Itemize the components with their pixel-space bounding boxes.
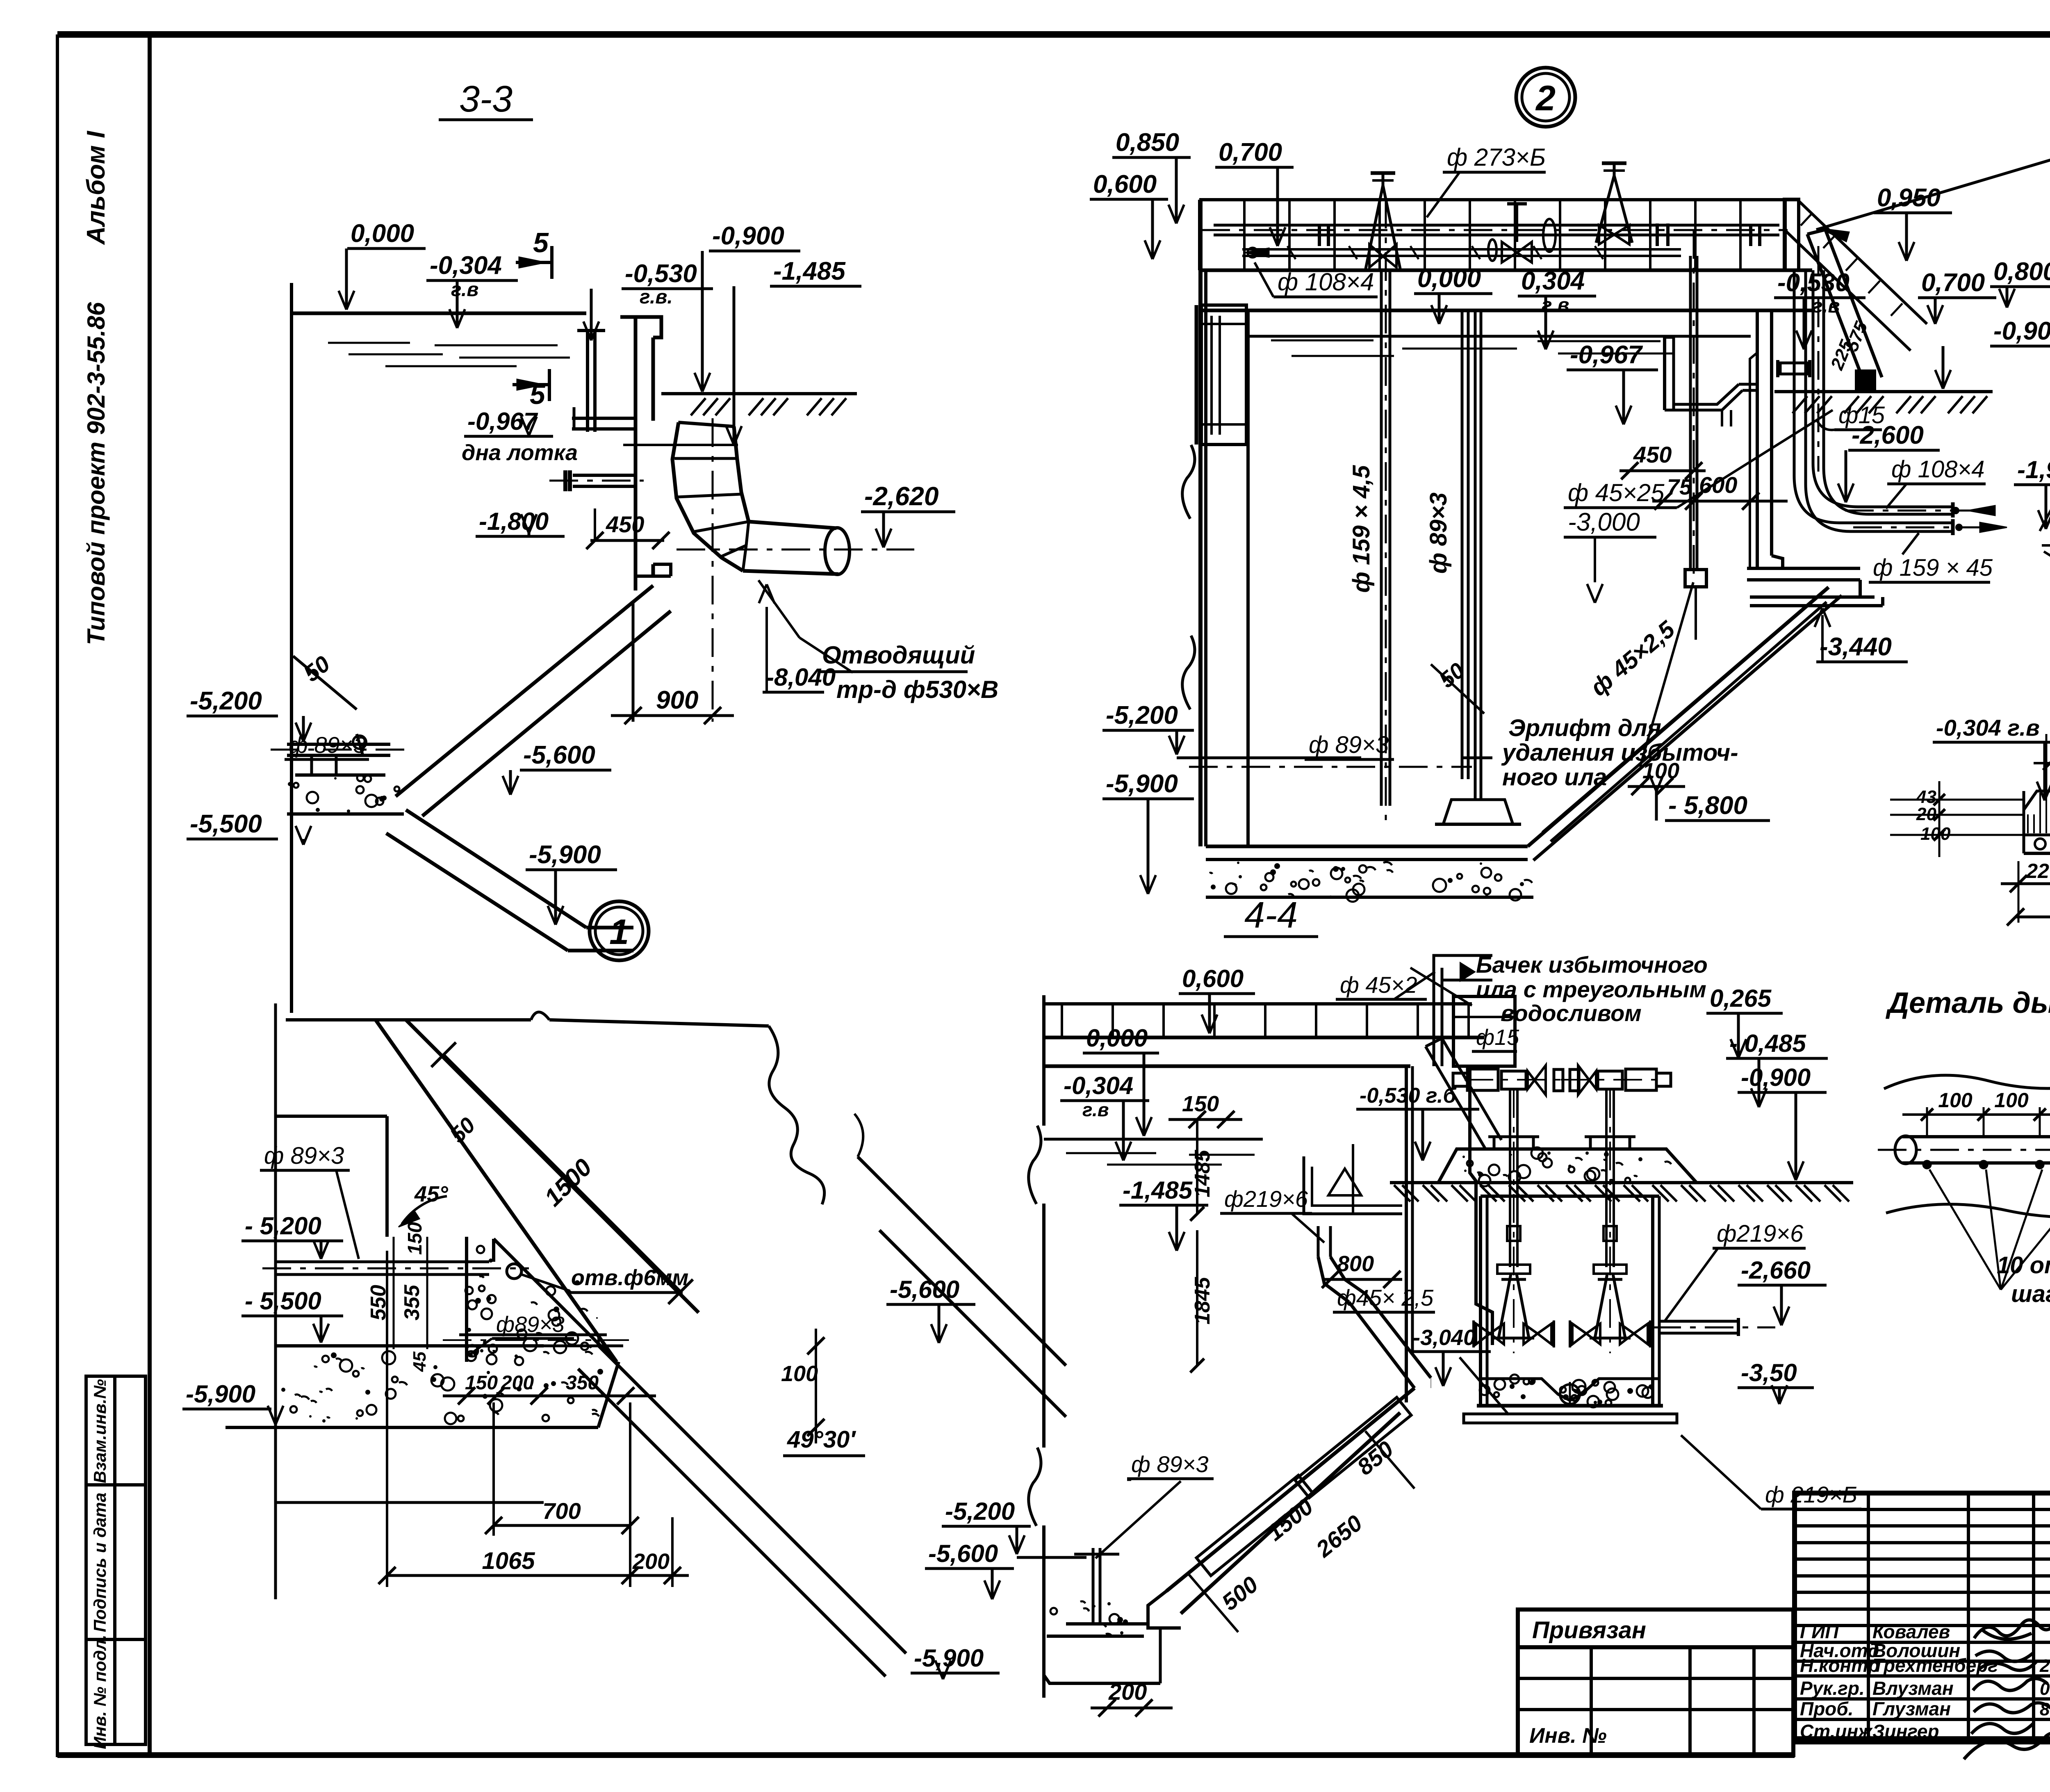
svg-text:шаг 100: шаг 100	[2011, 1281, 2050, 1307]
svg-text:-1,485: -1,485	[773, 257, 846, 285]
svg-text:600: 600	[1699, 472, 1737, 498]
svg-text:Типовой проект 902-3-55.86: Типовой проект 902-3-55.86	[82, 302, 110, 645]
svg-text:тр-д ф530×В: тр-д ф530×В	[836, 676, 998, 703]
svg-text:г.в: г.в	[1082, 1099, 1109, 1120]
svg-text:- 0,485: - 0,485	[1729, 1030, 1806, 1057]
svg-text:350: 350	[566, 1372, 599, 1394]
svg-text:Взам.инв.№: Взам.инв.№	[90, 1379, 109, 1483]
svg-text:ф 108×4: ф 108×4	[1278, 268, 1374, 296]
svg-text:ф 159 × 4,5: ф 159 × 4,5	[1348, 465, 1375, 593]
svg-text:-5,900: -5,900	[186, 1380, 255, 1408]
svg-text:- 5,200: - 5,200	[245, 1212, 321, 1240]
svg-text:ф45× 2,5: ф45× 2,5	[1337, 1285, 1434, 1311]
svg-text:ф 89×3: ф 89×3	[1425, 492, 1452, 574]
svg-text:г.в: г.в	[1812, 295, 1840, 317]
svg-text:450: 450	[606, 511, 644, 537]
svg-text:0,000: 0,000	[1417, 264, 1481, 293]
svg-text:ф219×6: ф219×6	[1717, 1220, 1804, 1247]
svg-text:100: 100	[781, 1361, 818, 1386]
svg-text:Деталь дырчатого воздухопров: Деталь дырчатого воздухопровода.	[1885, 987, 2050, 1019]
svg-text:г.в: г.в	[1542, 294, 1569, 316]
svg-text:-0,900: -0,900	[1741, 1064, 1811, 1091]
svg-text:удаления избыточ-: удаления избыточ-	[1501, 739, 1738, 766]
svg-text:ф 219×Б: ф 219×Б	[1765, 1482, 1857, 1507]
svg-text:г.в.: г.в.	[640, 286, 673, 308]
svg-text:водосливом: водосливом	[1501, 1000, 1642, 1026]
svg-text:-0,304: -0,304	[430, 251, 502, 280]
svg-text:220: 220	[2026, 860, 2050, 882]
svg-text:-1,800: -1,800	[479, 508, 549, 535]
svg-text:ного ила: ного ила	[1502, 764, 1607, 791]
svg-text:- 5,500: - 5,500	[245, 1287, 321, 1315]
svg-text:100: 100	[1938, 1089, 1973, 1112]
svg-text:150: 150	[465, 1372, 498, 1394]
svg-text:150: 150	[1182, 1092, 1219, 1116]
svg-text:Н.контр: Н.контр	[1800, 1655, 1879, 1676]
svg-text:0,600: 0,600	[1093, 170, 1157, 198]
svg-text:-5,500: -5,500	[190, 810, 262, 838]
svg-text:-5,600: -5,600	[890, 1276, 959, 1303]
svg-text:Ст.инж: Ст.инж	[1800, 1721, 1873, 1742]
svg-text:0,304: 0,304	[1521, 267, 1585, 295]
svg-text:Эрлифт для: Эрлифт для	[1508, 715, 1661, 741]
svg-text:Проб.: Проб.	[1800, 1698, 1854, 1719]
svg-text:-0,900: -0,900	[1993, 317, 2050, 345]
svg-text:0,700: 0,700	[1219, 138, 1282, 166]
svg-text:-5,600: -5,600	[928, 1540, 998, 1567]
svg-text:800: 800	[1337, 1252, 1374, 1276]
svg-text:10 отв. ф 6 мм: 10 отв. ф 6 мм	[1997, 1252, 2050, 1279]
svg-text:Зингер: Зингер	[1872, 1721, 1939, 1742]
svg-text:49°30′: 49°30′	[787, 1426, 856, 1453]
svg-text:-0,304 г.в: -0,304 г.в	[1936, 715, 2040, 741]
svg-text:0,600: 0,600	[1182, 965, 1244, 992]
svg-text:45: 45	[410, 1352, 430, 1372]
svg-text:Ковалев: Ковалев	[1872, 1621, 1950, 1642]
svg-text:1845: 1845	[1191, 1277, 1214, 1325]
svg-text:0,000: 0,000	[1086, 1024, 1148, 1052]
svg-text:4-4: 4-4	[1244, 895, 1298, 936]
svg-text:150: 150	[404, 1222, 426, 1255]
svg-text:г.в: г.в	[451, 279, 478, 301]
svg-text:Отводящий: Отводящий	[822, 641, 975, 669]
svg-text:- 5,800: - 5,800	[1668, 791, 1747, 820]
svg-text:-0,530 г.б: -0,530 г.б	[1360, 1084, 1457, 1108]
svg-text:ф 89×3: ф 89×3	[1309, 732, 1389, 758]
svg-text:-2,600: -2,600	[1852, 421, 1924, 449]
svg-text:ф15: ф15	[1476, 1025, 1519, 1050]
svg-text:ф 89×3: ф 89×3	[264, 1142, 344, 1169]
svg-text:Инв. № подл.: Инв. № подл.	[90, 1635, 109, 1749]
svg-text:45°: 45°	[414, 1182, 448, 1206]
svg-text:-5,600: -5,600	[523, 741, 595, 769]
svg-text:75: 75	[1667, 475, 1692, 499]
svg-text:-1,950: -1,950	[2017, 456, 2050, 483]
svg-text:Альбом I: Альбом I	[82, 130, 110, 246]
svg-text:-5,900: -5,900	[529, 841, 601, 869]
svg-text:Инв. №: Инв. №	[1529, 1724, 1607, 1748]
svg-text:200: 200	[632, 1549, 670, 1574]
svg-text:Рук.гр.: Рук.гр.	[1800, 1678, 1865, 1699]
svg-text:-0,967: -0,967	[1570, 341, 1643, 369]
svg-text:отв.ф6мм: отв.ф6мм	[571, 1265, 688, 1290]
svg-text:ф 89×3: ф 89×3	[1131, 1451, 1208, 1477]
svg-text:5: 5	[533, 227, 549, 258]
svg-text:Глузман: Глузман	[1872, 1698, 1951, 1719]
svg-text:700: 700	[542, 1498, 581, 1524]
svg-text:-3,440: -3,440	[1820, 633, 1892, 661]
svg-text:1065: 1065	[482, 1548, 535, 1574]
svg-text:Подпись и дата: Подпись и дата	[90, 1493, 109, 1632]
svg-text:ф219×6: ф219×6	[1224, 1186, 1308, 1212]
svg-text:ГИП: ГИП	[1800, 1621, 1839, 1642]
svg-text:100: 100	[1994, 1089, 2029, 1112]
svg-text:0,800: 0,800	[1993, 258, 2050, 286]
svg-text:ф89×3: ф89×3	[496, 1312, 565, 1337]
svg-text:ф 45×2: ф 45×2	[1340, 972, 1417, 998]
svg-text:-5,900: -5,900	[1106, 770, 1178, 798]
svg-text:-5,200: -5,200	[945, 1498, 1015, 1525]
svg-text:Влузман: Влузман	[1872, 1678, 1954, 1699]
svg-text:25.: 25.	[2039, 1656, 2050, 1676]
svg-text:2: 2	[1535, 79, 1556, 118]
svg-text:0,000: 0,000	[351, 219, 414, 248]
svg-text:ф 89×3: ф 89×3	[289, 732, 366, 758]
svg-text:ила с треугольным: ила с треугольным	[1476, 976, 1706, 1002]
svg-text:ф 159 × 45: ф 159 × 45	[1873, 554, 1993, 581]
svg-text:-3,000: -3,000	[1568, 508, 1640, 536]
svg-text:200: 200	[501, 1372, 534, 1394]
svg-text:дна лотка: дна лотка	[462, 440, 578, 465]
svg-text:-1,485: -1,485	[1123, 1176, 1193, 1204]
svg-text:-3,040: -3,040	[1413, 1325, 1476, 1350]
svg-text:ф 273×Б: ф 273×Б	[1447, 144, 1546, 171]
svg-text:-5,200: -5,200	[1106, 701, 1178, 730]
svg-text:-2,660: -2,660	[1741, 1256, 1811, 1284]
svg-text:3-3: 3-3	[459, 79, 512, 120]
svg-text:355: 355	[400, 1284, 424, 1320]
svg-text:-0,304: -0,304	[1064, 1072, 1133, 1099]
svg-text:-2,620: -2,620	[864, 481, 938, 511]
svg-text:-0,900: -0,900	[712, 222, 784, 250]
svg-text:0,265: 0,265	[1710, 985, 1772, 1012]
svg-text:-0,530: -0,530	[1777, 269, 1850, 297]
svg-text:ф 108×4: ф 108×4	[1891, 456, 1984, 483]
svg-text:0,700: 0,700	[1921, 269, 1985, 297]
svg-text:ф 45×25: ф 45×25	[1568, 479, 1665, 506]
svg-text:Привязан: Привязан	[1532, 1617, 1646, 1644]
svg-text:Трехтенберг: Трехтенберг	[1872, 1655, 1998, 1676]
svg-text:-0,530: -0,530	[625, 260, 697, 288]
svg-text:1485: 1485	[1191, 1149, 1214, 1197]
svg-text:Бачек избыточного: Бачек избыточного	[1476, 952, 1708, 978]
svg-text:0,850: 0,850	[1116, 128, 1179, 157]
svg-text:900: 900	[656, 686, 698, 714]
svg-text:-3,50: -3,50	[1741, 1359, 1797, 1386]
svg-text:-5,200: -5,200	[190, 687, 262, 715]
svg-text:1: 1	[609, 912, 629, 952]
